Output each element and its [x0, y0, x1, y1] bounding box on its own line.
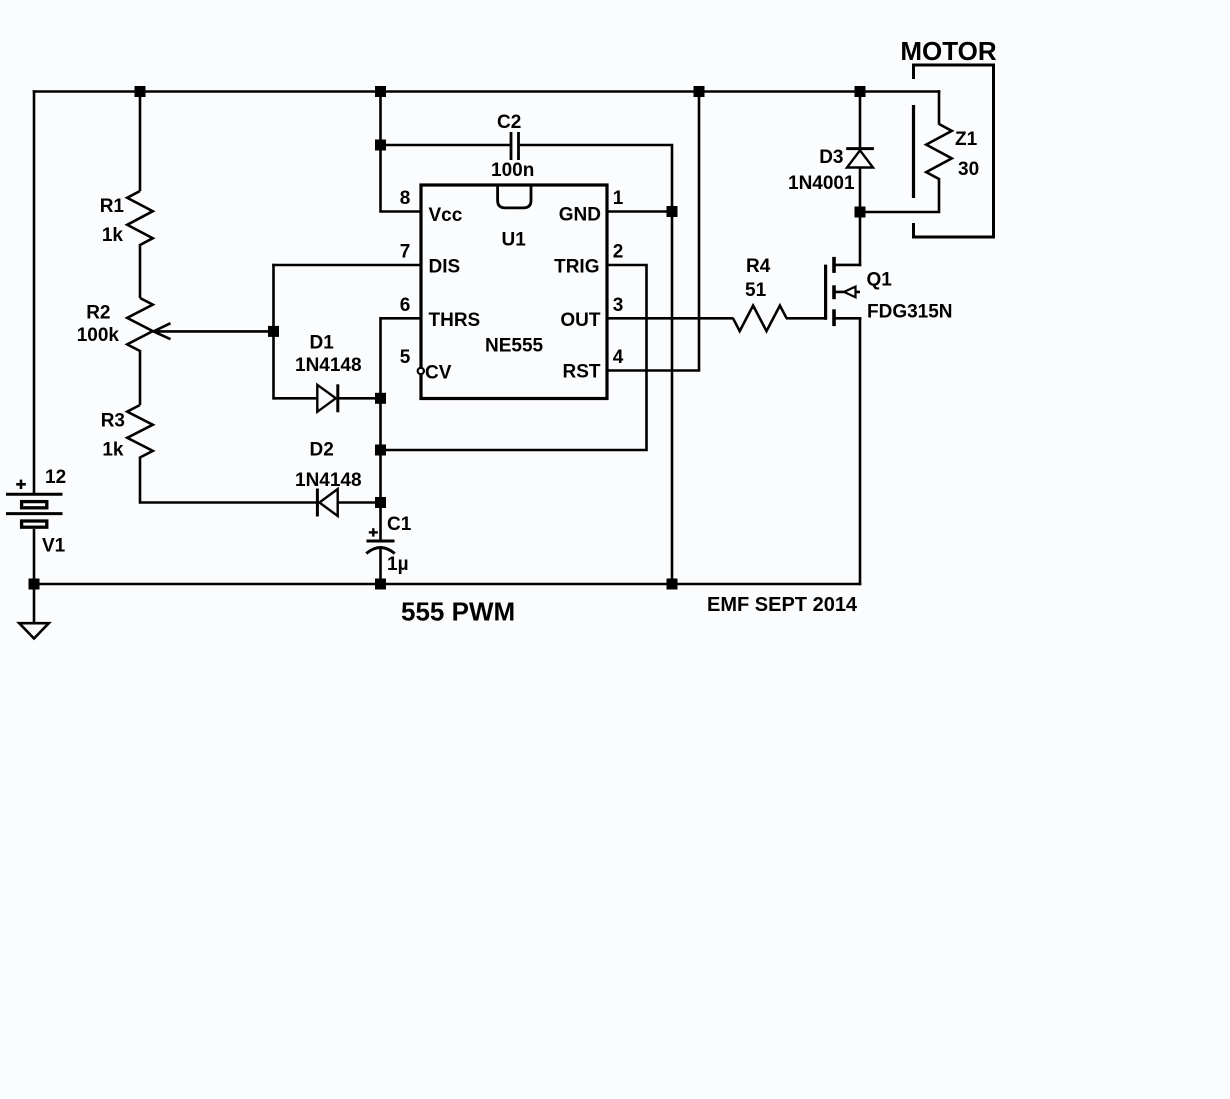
- wire motor branch down: [938, 90, 941, 124]
- node junction GND pin / C2 drop: [667, 206, 678, 217]
- node junction top rail R1: [135, 86, 146, 97]
- wire left rail battery+ to top rail: [33, 90, 36, 494]
- wire R2 to R3: [139, 350, 142, 405]
- svg-text:C2: C2: [497, 112, 521, 133]
- svg-text:1k: 1k: [102, 225, 124, 246]
- svg-text:12: 12: [45, 467, 66, 488]
- svg-text:3: 3: [613, 295, 624, 316]
- pin 5 CV circle: [418, 368, 424, 374]
- svg-text:TRIG: TRIG: [554, 257, 599, 278]
- wire Q1 source to ground rail: [859, 317, 862, 585]
- wire Q1 drain: [859, 211, 862, 267]
- battery V1: [6, 494, 63, 527]
- wire R4 to gate: [786, 317, 827, 320]
- node junction wiper tee: [268, 326, 279, 337]
- svg-text:DIS: DIS: [429, 257, 461, 278]
- op-amp timer U1 NE555 body: [421, 185, 607, 399]
- svg-text:555 PWM: 555 PWM: [401, 597, 515, 627]
- wire wiper vertical node: [272, 264, 275, 400]
- node junction battery minus / ground rail: [29, 579, 40, 590]
- wire wiper node to D1 anode: [274, 397, 319, 400]
- svg-text:1N4148: 1N4148: [295, 355, 362, 376]
- svg-text:51: 51: [745, 280, 767, 301]
- svg-text:D1: D1: [310, 333, 335, 354]
- svg-text:Vcc: Vcc: [429, 205, 463, 226]
- node junction top rail RST branch: [694, 86, 705, 97]
- svg-text:R3: R3: [101, 411, 125, 432]
- wire DIS pin 7: [272, 264, 421, 267]
- node junction C2 / ground rail: [667, 579, 678, 590]
- svg-text:6: 6: [400, 295, 411, 316]
- wire OUT pin 3: [607, 317, 734, 320]
- wire C2 left: [381, 144, 510, 147]
- node junction D1 cathode / THRS net: [375, 393, 386, 404]
- svg-text:RST: RST: [563, 362, 601, 383]
- resistor R4: [733, 306, 787, 332]
- svg-text:NE555: NE555: [485, 336, 544, 357]
- wire top +12V rail: [33, 90, 941, 93]
- diode D1: [317, 384, 381, 412]
- svg-text:R2: R2: [86, 303, 110, 324]
- svg-text:CV: CV: [425, 363, 452, 384]
- node junction D2 cathode / C1 top: [375, 497, 386, 508]
- svg-text:Q1: Q1: [867, 270, 893, 291]
- svg-text:MOTOR: MOTOR: [900, 36, 997, 66]
- capacitor C2: [511, 132, 519, 160]
- node junction TRIG tee: [375, 445, 386, 456]
- R2 wiper arrow: [153, 323, 275, 339]
- svg-text:D3: D3: [819, 147, 843, 168]
- resistor R1: [127, 191, 153, 245]
- ground: [19, 584, 49, 639]
- svg-text:4: 4: [613, 347, 624, 368]
- svg-text:1N4148: 1N4148: [295, 470, 362, 491]
- svg-text:8: 8: [400, 188, 411, 209]
- wire top rail to R1: [139, 90, 142, 191]
- svg-text:THRS: THRS: [429, 310, 481, 331]
- wire C2 right to ground rail: [520, 145, 672, 585]
- svg-text:7: 7: [400, 242, 411, 263]
- potentiometer R2: [127, 298, 153, 351]
- wire Z1 to motor bottom loop: [859, 178, 939, 212]
- svg-text:5: 5: [400, 347, 411, 368]
- svg-text:100n: 100n: [491, 160, 534, 181]
- node junction top rail D3/motor: [855, 86, 866, 97]
- wire bottom ground rail: [33, 583, 862, 586]
- wire THRS net vertical: [381, 318, 422, 541]
- svg-text:EMF SEPT 2014: EMF SEPT 2014: [707, 594, 858, 616]
- svg-text:D2: D2: [310, 440, 334, 461]
- wire battery- to ground node: [33, 529, 36, 585]
- svg-text:1µ: 1µ: [387, 554, 409, 575]
- transistor Q1: [826, 257, 862, 326]
- motor bar: [912, 105, 915, 198]
- diode D3: [846, 149, 874, 214]
- node junction C2-Vcc tee: [375, 140, 386, 151]
- wire GND pin 1: [607, 210, 672, 213]
- svg-text:FDG315N: FDG315N: [867, 302, 953, 323]
- svg-text:R1: R1: [100, 196, 125, 217]
- C1 plus sign: [369, 528, 378, 536]
- capacitor C1: [366, 541, 394, 585]
- node junction C1 bottom / ground rail: [375, 579, 386, 590]
- wire Vcc pin 8 to top rail: [381, 90, 422, 211]
- wire R1 to R2: [139, 244, 142, 298]
- svg-text:GND: GND: [559, 205, 601, 226]
- resistor R3: [127, 405, 153, 458]
- wire TRIG pin 2 loop: [379, 265, 646, 450]
- diode D2: [317, 489, 381, 517]
- svg-text:2: 2: [613, 242, 624, 263]
- svg-text:30: 30: [958, 159, 979, 180]
- svg-text:OUT: OUT: [560, 310, 601, 331]
- wire R3 bottom to D2 anode: [140, 457, 318, 503]
- svg-text:1N4001: 1N4001: [788, 173, 855, 194]
- node junction top rail Vcc branch: [375, 86, 386, 97]
- battery plus sign: [16, 480, 26, 489]
- wire RST pin 4 to top rail: [607, 90, 699, 370]
- svg-text:Z1: Z1: [955, 129, 978, 150]
- svg-text:R4: R4: [746, 256, 771, 277]
- svg-text:U1: U1: [502, 230, 527, 251]
- svg-text:C1: C1: [387, 514, 412, 535]
- resistor Z1 motor impedance: [926, 124, 952, 179]
- svg-text:V1: V1: [42, 536, 66, 557]
- svg-text:100k: 100k: [77, 325, 120, 346]
- motor bracket outline: [914, 65, 994, 237]
- wire top rail to D3 cathode: [859, 90, 862, 150]
- svg-text:1: 1: [613, 188, 624, 209]
- node junction D3 anode / motor bottom: [855, 207, 866, 218]
- svg-text:1k: 1k: [102, 440, 124, 461]
